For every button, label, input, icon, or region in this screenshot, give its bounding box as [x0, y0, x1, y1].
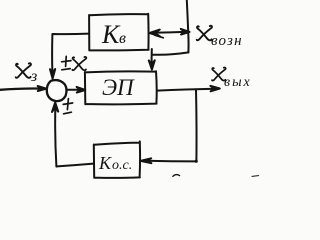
wire feedback to Koc — [146, 160, 196, 163]
wire input xz — [0, 89, 44, 90]
svg-text:вых: вых — [224, 75, 252, 90]
arrowhead down into junction — [50, 69, 55, 79]
arrowhead into Kv right — [150, 30, 160, 37]
svg-text:ЭП: ЭП — [102, 75, 135, 100]
arrowhead into EP — [77, 87, 86, 93]
summing junction — [47, 80, 67, 101]
stray mark caret — [173, 175, 180, 177]
arrowhead input — [38, 86, 47, 91]
block Kv — [89, 14, 149, 51]
svg-text:в: в — [119, 30, 126, 47]
block Koc — [94, 141, 140, 177]
svg-text:о.с.: о.с. — [112, 158, 132, 173]
arrowhead into Koc — [141, 158, 152, 163]
label Kv — [101, 20, 126, 49]
junction corner blob — [195, 160, 198, 163]
svg-text:возн: возн — [211, 33, 243, 49]
svg-text:К: К — [101, 20, 121, 49]
junction arrow blob — [181, 29, 190, 35]
label x_vyh — [212, 68, 252, 90]
wire x_vozn branch to Kv — [152, 32, 189, 33]
label plus-minus x — [62, 56, 87, 70]
stray mark dash — [252, 175, 259, 178]
wire EP output — [157, 89, 216, 91]
label EP — [102, 75, 135, 100]
label x_vozn — [197, 26, 243, 49]
svg-text:К: К — [98, 153, 112, 173]
wire Koc to summing junction — [55, 105, 93, 166]
block EP — [85, 71, 157, 104]
label plus-minus bottom — [63, 99, 72, 114]
label Koc — [98, 153, 132, 173]
arrowhead up into junction bottom — [52, 102, 58, 112]
wire x_vozn corner into EP top — [152, 49, 189, 67]
arrowhead down into EP top — [149, 60, 155, 69]
label xz — [16, 63, 38, 85]
arrowhead output — [210, 86, 219, 91]
wire Kv output to summing junction — [52, 34, 89, 74]
wire feedback tap down — [195, 90, 198, 162]
wire summing junction to EP — [67, 89, 79, 91]
wire x_vozn from top — [187, 0, 189, 52]
svg-text:з: з — [30, 68, 37, 85]
